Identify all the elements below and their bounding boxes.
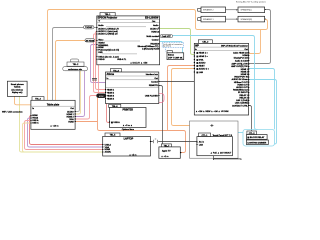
svg-text:Apple TV: Apple TV: [162, 149, 171, 152]
svg-text:USB C: USB C: [32, 122, 39, 124]
svg-text:SPEAKER 2: SPEAKER 2: [203, 9, 214, 12]
svg-text:(by others): (by others): [163, 45, 172, 48]
svg-text:Control: Control: [151, 80, 158, 83]
svg-text:PRINTER: PRINTER: [122, 108, 133, 111]
svg-text:Table plate: Table plate: [47, 103, 60, 106]
svg-text:▣ LAN: ▣ LAN: [196, 71, 203, 74]
svg-text:▲ <5 m: ▲ <5 m: [129, 153, 137, 156]
svg-text:Interface box: Interface box: [146, 73, 159, 76]
svg-text:HDMI: HDMI: [68, 121, 74, 123]
svg-text:Audio In 1/2/3: Audio In 1/2/3: [235, 59, 249, 62]
svg-text:Video: Video: [98, 39, 104, 41]
svg-text:DisplayPort 1/2: DisplayPort 1/2: [234, 57, 249, 60]
svg-text:EB-L200SW: EB-L200SW: [145, 17, 159, 20]
svg-text:Out: Out: [154, 77, 158, 80]
svg-text:AMP OUT(L) 70V: AMP OUT(L) 70V: [232, 63, 249, 66]
svg-text:LAN: LAN: [199, 143, 204, 146]
svg-text:Out: Out: [152, 20, 156, 23]
svg-text:AMP OUT(R) 70V: AMP OUT(R) 70V: [231, 65, 248, 68]
svg-text:▲ <1M ▲ NEW ▲ <1M ▲ UV 50M: ▲ <1M ▲ NEW ▲ <1M ▲ UV 50M: [196, 110, 229, 113]
svg-text:RELAY 1: RELAY 1: [239, 94, 248, 97]
svg-text:Cat6 UTP: Cat6 UTP: [162, 35, 172, 38]
svg-text:LAN 1 (PoE): LAN 1 (PoE): [236, 99, 248, 102]
svg-text:Tablets: Tablets: [14, 86, 21, 89]
svg-text:LIGHTING DIMMER: LIGHTING DIMMER: [247, 143, 266, 145]
svg-text:▲ <5 m ▲: ▲ <5 m ▲: [123, 124, 133, 127]
svg-text:USB-A TL: USB-A TL: [117, 58, 127, 61]
svg-text:Atlona: Atlona: [107, 73, 115, 76]
svg-text:▣ USB A: ▣ USB A: [111, 121, 120, 124]
svg-text:▲ DC5.1V ▲ <5M: ▲ DC5.1V ▲ <5M: [130, 62, 147, 65]
svg-text:SPEAKER 1: SPEAKER 1: [203, 18, 214, 21]
svg-text:WP: WP: [195, 44, 199, 47]
svg-text:▣ HDMI 1 ●: ▣ HDMI 1 ●: [196, 52, 208, 55]
svg-text:Control: Control: [152, 38, 159, 41]
svg-text:AUDIO OUT: AUDIO OUT: [236, 86, 248, 89]
svg-text:Audio: Audio: [153, 24, 159, 27]
svg-text:AUDIO L1 (mini jack): AUDIO L1 (mini jack): [98, 30, 118, 33]
svg-text:HDMI 2: HDMI 2: [107, 93, 115, 95]
svg-text:▣ BLOCK RELAY: ▣ BLOCK RELAY: [247, 136, 264, 139]
svg-text:AUDIO L2 (RED) 1/2: AUDIO L2 (RED) 1/2: [98, 33, 118, 36]
svg-text:LAPTOP: LAPTOP: [124, 137, 134, 140]
svg-text:USB PLAYER: USB PLAYER: [145, 94, 158, 97]
svg-text:REMOTE: REMOTE: [149, 85, 159, 87]
svg-text:Smart phones: Smart phones: [11, 83, 24, 86]
svg-text:AC in: AC in: [199, 141, 205, 144]
svg-text:SPEAKER(L): SPEAKER(L): [241, 9, 253, 12]
svg-text:VGA/YPbPr IN: VGA/YPbPr IN: [234, 76, 248, 79]
svg-text:HDMI 4: HDMI 4: [107, 98, 115, 100]
svg-text:AUDIO IN 3.5mm: AUDIO IN 3.5mm: [232, 78, 248, 81]
svg-text:Multi monitor: Multi monitor: [146, 35, 158, 38]
svg-text:RELAY 2: RELAY 2: [239, 96, 248, 99]
svg-text:▣ HDMI 2 ●: ▣ HDMI 2 ●: [196, 55, 208, 58]
svg-text:Optional item: Optional item: [122, 128, 135, 131]
svg-text:SPEAKER(R): SPEAKER(R): [241, 18, 253, 21]
svg-text:Airplay etc): Airplay etc): [12, 91, 23, 94]
svg-text:DTP T UWP 4K: DTP T UWP 4K: [168, 57, 183, 59]
svg-text:▣ VGA: ▣ VGA: [196, 58, 204, 61]
svg-text:▣ HDBT: ▣ HDBT: [196, 64, 205, 67]
svg-text:Out: Out: [244, 48, 248, 51]
svg-text:AC/DC: AC/DC: [105, 151, 112, 154]
svg-text:Existing Atlas 70V In-ceiling: Existing Atlas 70V In-ceiling speakers: [236, 1, 266, 4]
svg-text:Out: Out: [70, 107, 74, 110]
svg-text:Extron: Extron: [168, 53, 175, 56]
svg-text:RS232/Ethernet: RS232/Ethernet: [233, 89, 248, 92]
svg-text:▣ AUDIO: ▣ AUDIO: [196, 61, 205, 64]
svg-text:CONTACT CTRL: CONTACT CTRL: [232, 104, 249, 107]
svg-text:▲ <10 m: ▲ <10 m: [50, 125, 59, 128]
svg-text:PC(Comptr)(D-sub 15): PC(Comptr)(D-sub 15): [98, 49, 119, 52]
svg-text:Audio: Audio: [98, 24, 104, 27]
svg-text:HDMI 3: HDMI 3: [107, 95, 115, 97]
svg-text:(WP-UT401) 4K A/V switcher: (WP-UT401) 4K A/V switcher: [221, 44, 248, 47]
svg-text:HDMI 1: HDMI 1: [107, 90, 115, 92]
svg-text:▲ <1 m: ▲ <1 m: [161, 155, 169, 158]
svg-text:TBL-2: TBL-2: [73, 64, 80, 66]
svg-text:EPSON Projector: EPSON Projector: [98, 17, 118, 20]
svg-text:AUDIO L2 (White) L/R: AUDIO L2 (White) L/R: [98, 27, 119, 30]
svg-text:A (Network) RJ45: A (Network) RJ45: [142, 48, 159, 51]
svg-text:TV/DSP: TV/DSP: [85, 27, 93, 29]
svg-text:conference mic: conference mic: [68, 68, 82, 71]
svg-text:LAN 2 (100M): LAN 2 (100M): [235, 102, 248, 105]
svg-text:Ethernet(100Base-TX): Ethernet(100Base-TX): [138, 45, 159, 48]
svg-text:AUDIO 2: AUDIO 2: [150, 27, 159, 30]
svg-text:HDMI: HDMI: [99, 96, 104, 98]
svg-text:WiFi / LAN connection: WiFi / LAN connection: [2, 111, 23, 114]
svg-text:4K HDMI: 4K HDMI: [86, 40, 95, 42]
svg-text:HDMI 2: HDMI 2: [151, 32, 159, 34]
svg-text:▣ AUDIO 2 ●: ▣ AUDIO 2 ●: [196, 67, 209, 70]
svg-text:▲ PoE ▲ 24V IN/OUT: ▲ PoE ▲ 24V IN/OUT: [210, 152, 232, 155]
svg-text:USB-B: USB-B: [98, 59, 105, 61]
svg-text:USB-A (2x min. 1 pwr): USB-A (2x min. 1 pwr): [98, 55, 119, 58]
